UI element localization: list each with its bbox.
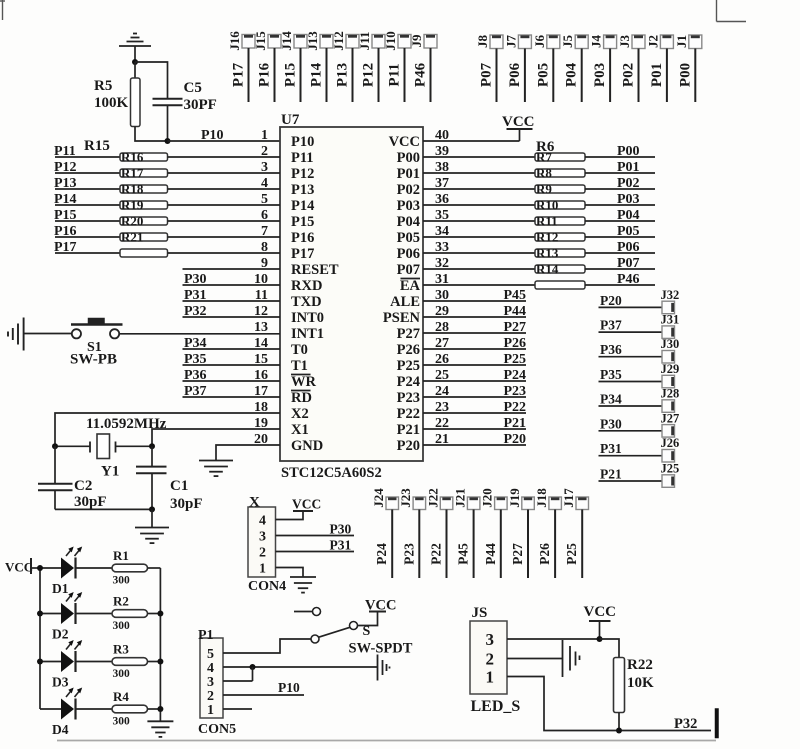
label P44 [503,304,526,319]
pin number 7 [261,224,268,239]
wire to chip [168,252,281,254]
svg-text:P00: P00 [617,144,640,159]
label P35 [184,352,207,367]
wire P34 (pin 14) [183,348,281,350]
svg-text:J21: J21 [452,488,467,508]
wire P14 stub [55,204,120,206]
wire J1 to net P00 [694,49,696,103]
ground (S1 left) [8,318,72,351]
svg-text:D4: D4 [52,722,69,737]
label P26 [503,336,526,351]
svg-text:P26: P26 [503,336,526,351]
pin number 12 [254,304,268,319]
svg-text:P32: P32 [184,304,207,319]
resistor R14 [535,262,585,277]
label P23 (vertical) [401,543,416,565]
wire X1 (pin 19) to right rail [152,429,280,446]
wire C5 bottom [167,105,169,141]
svg-text:J7: J7 [503,35,518,49]
connector J16 [227,31,255,51]
svg-text:C2: C2 [74,478,92,494]
svg-text:P26: P26 [397,342,420,358]
label P05 [617,224,640,239]
svg-text:P35: P35 [184,352,207,367]
label P06 (vertical) [507,62,523,87]
connector J4 [589,35,617,49]
wire P45 (pin 30) [423,300,526,302]
svg-text:30PF: 30PF [184,97,217,113]
svg-text:P21: P21 [600,467,622,482]
wire to net P01 [585,172,655,174]
label P12 [54,160,77,175]
svg-text:VCC: VCC [365,598,396,614]
svg-text:J18: J18 [534,488,549,508]
connector J18 [534,488,562,510]
wire chip to resistor [423,220,535,222]
wire chip to resistor [423,204,535,206]
pin number 28 [435,320,449,335]
svg-text:J30: J30 [661,337,680,351]
wire CON4 pin1 to ground [276,568,304,577]
label P00 [617,144,640,159]
svg-text:Y1: Y1 [101,464,119,480]
svg-text:INT1: INT1 [291,326,324,342]
pin number 17 [254,384,268,399]
svg-text:VCC: VCC [584,604,617,620]
svg-text:P03: P03 [397,198,420,214]
svg-text:P01: P01 [617,160,640,175]
wire to net P02 [585,188,655,190]
wire J9 to net P46 [430,48,432,102]
svg-text:P16: P16 [257,62,273,87]
label P17 (vertical) [231,62,247,87]
connector J9 [409,34,437,48]
label R6 [536,139,555,155]
ground (CON4) [290,577,316,593]
connector J1 [674,35,702,49]
svg-text:13: 13 [254,320,268,335]
CON5 pin 1 [207,703,214,718]
label 11.0592MHz [86,416,167,432]
svg-text:J19: J19 [507,488,522,508]
svg-text:INT0: INT0 [291,310,324,326]
U7 pin name P03 (pin 36) [397,198,420,214]
U7 pin name P17 (pin 8) [291,246,314,262]
U7 pin name X2 (pin 18) [291,406,309,422]
svg-text:P05: P05 [617,224,640,239]
svg-text:J15: J15 [253,31,268,51]
svg-text:P37: P37 [184,384,207,399]
connector J15 [253,31,281,51]
svg-text:R20: R20 [121,214,143,229]
svg-text:R22: R22 [627,657,653,673]
label P24 [503,368,526,383]
label P15 [54,208,77,223]
connector J10 [383,31,411,51]
node junction C5 bottom on P10 [165,138,171,144]
ground (JS pin2) [507,640,580,677]
svg-text:P04: P04 [617,208,640,223]
resistor R7 [535,150,585,165]
border bottom edge line [57,740,716,742]
svg-text:X1: X1 [291,422,309,438]
U7 pin name P13 (pin 4) [291,182,314,198]
wire net P34 to J28 [599,405,663,407]
wire P23 (pin 24) [423,396,526,398]
svg-text:10K: 10K [627,675,654,691]
svg-text:P24: P24 [397,374,420,390]
connector J25 [661,462,680,488]
label P07 [617,256,640,271]
svg-text:P25: P25 [503,352,526,367]
LED D4 [40,688,112,738]
pin number 21 [435,432,449,447]
U7 pin name P04 (pin 35) [397,214,420,230]
U7 pin name P25 (pin 26) [397,358,420,374]
resistor R (unlabeled) [120,249,168,257]
svg-text:P36: P36 [600,342,622,357]
U7 pin name P20 (pin 21) [397,438,420,454]
svg-text:J28: J28 [661,387,680,401]
svg-text:5: 5 [207,647,214,662]
wire net P20 to J32 [599,306,663,308]
pin number 14 [254,336,268,351]
svg-text:P34: P34 [600,392,622,407]
resistor R5 [94,78,140,127]
JS pin 2 [486,650,495,669]
wire chip to resistor [423,156,535,158]
label P06 [617,240,640,255]
connector JS LED_S body [470,605,520,715]
U7 pin name RD (pin 17) [291,390,312,406]
wire to chip [168,188,281,190]
label P37 [600,318,622,333]
svg-text:P46: P46 [413,62,429,87]
connector J31 [661,313,680,339]
svg-text:P30: P30 [600,416,622,431]
label P23 [503,384,526,399]
svg-text:ALE: ALE [390,294,420,310]
switch S1 SW-PB [70,318,123,368]
svg-text:P21: P21 [397,422,420,438]
svg-text:R15: R15 [84,138,110,154]
label P12 (vertical) [361,63,377,87]
wire J8 to net P07 [496,49,498,103]
label P46 [617,272,640,287]
svg-text:CON5: CON5 [198,722,236,737]
resistor R20 [120,214,168,229]
wire P16 stub [55,236,120,238]
CON5 pin 2 [207,689,214,704]
U7 pin name TXD (pin 11) [291,294,322,310]
connector J20 [480,488,508,509]
U7 pin name P22 (pin 23) [397,406,420,422]
wire J10 to net P11 [404,48,406,102]
svg-text:P01: P01 [649,63,665,87]
wire net P35 to J29 [599,381,663,383]
svg-text:J1: J1 [674,35,689,48]
svg-text:VCC: VCC [292,497,321,512]
svg-text:R3: R3 [113,642,129,657]
wire J6 to net P05 [552,49,554,103]
U7 pin name P24 (pin 25) [397,374,420,390]
svg-text:P23: P23 [397,390,420,406]
svg-text:VCC: VCC [502,114,535,130]
svg-text:2: 2 [486,650,495,669]
wire P11 stub [55,156,120,158]
wire P20 (pin 21) [423,444,526,446]
svg-text:J11: J11 [357,32,372,51]
wire chip to resistor [423,188,535,190]
svg-text:P36: P36 [184,368,207,383]
svg-text:2: 2 [207,689,214,704]
svg-text:P17: P17 [291,246,314,262]
svg-text:RESET: RESET [291,262,339,278]
svg-text:300: 300 [113,575,131,587]
svg-text:P14: P14 [54,192,77,207]
label P26 (vertical) [537,543,552,565]
svg-text:2: 2 [259,546,266,561]
svg-text:P24: P24 [374,543,389,565]
label U7 [281,112,300,128]
wire pin1 P10 [168,140,281,142]
svg-text:R7: R7 [536,150,552,165]
wire J18 to net P26 [554,510,556,579]
svg-text:VCC: VCC [389,134,420,150]
svg-text:P02: P02 [397,182,420,198]
wire pin4 to pin3 [252,667,254,681]
wire chip to resistor [423,268,535,270]
wire J2 to net P01 [666,49,668,103]
svg-text:P25: P25 [564,543,579,565]
svg-text:VCC: VCC [5,560,33,575]
capacitor C2 [38,446,107,510]
pin number 18 [254,400,268,415]
svg-text:P02: P02 [621,63,637,87]
label P13 [54,176,77,191]
svg-text:P11: P11 [387,63,403,86]
JS pin 1 [486,668,495,687]
U7 pin name P16 (pin 7) [291,230,314,246]
svg-text:P46: P46 [617,272,640,287]
label P14 (vertical) [309,62,325,87]
svg-text:P30: P30 [184,272,207,287]
wire P25 (pin 26) [423,364,526,366]
ground (SW-SPDT right) [378,655,390,681]
node junction C1 bottom [149,506,155,512]
svg-text:R13: R13 [536,246,559,261]
wire C1 bottom to ground [151,509,153,527]
svg-text:J31: J31 [661,313,680,327]
wire P27 (pin 28) [423,332,526,334]
label P36 [600,342,622,357]
border corner top-right [717,0,747,22]
wire to net P07 [585,268,655,270]
svg-text:P20: P20 [503,432,526,447]
svg-text:D2: D2 [52,627,69,642]
svg-text:P11: P11 [291,150,314,166]
svg-text:P23: P23 [401,543,416,565]
svg-text:J23: J23 [398,488,413,508]
svg-text:J2: J2 [645,35,660,48]
U7 pin name X1 (pin 19) [291,422,309,438]
svg-text:3: 3 [207,675,214,690]
svg-text:P07: P07 [617,256,640,271]
wire to chip [168,172,281,174]
resistor R10 [535,198,585,213]
svg-text:P20: P20 [600,293,622,308]
CON4 pin 4 [259,514,266,529]
U7 pin name P15 (pin 6) [291,214,314,230]
resistor R18 [120,182,168,197]
ground (LED rail) [147,721,173,737]
pin number 9 [261,256,268,271]
svg-text:P32: P32 [674,716,697,732]
svg-text:C1: C1 [170,478,188,494]
svg-text:P12: P12 [291,166,314,182]
wire P36 (pin 16) [183,380,281,382]
svg-text:4: 4 [207,661,214,676]
svg-text:J12: J12 [331,31,346,51]
svg-text:GND: GND [291,438,323,454]
wire net P37 to J31 [599,331,663,333]
label P11 (vertical) [387,63,403,86]
svg-text:JS: JS [472,605,488,621]
label P44 (vertical) [483,543,498,565]
svg-text:X2: X2 [291,406,309,422]
JS pin 3 [486,630,495,649]
svg-text:J8: J8 [475,35,490,49]
label P36 [184,368,207,383]
connector J28 [661,387,680,413]
label R15 [84,138,110,154]
pin number 29 [435,304,449,319]
label P45 (vertical) [456,543,471,565]
svg-text:P13: P13 [335,63,351,87]
resistor R22 10K [614,657,655,713]
wire S1 to pin 13 INT1 [119,333,280,335]
label P27 [503,320,526,335]
wire P31 (pin 11) [183,300,281,302]
svg-text:P14: P14 [309,62,325,87]
svg-text:P31: P31 [330,538,352,553]
power VCC (SW-SPDT) [365,598,396,614]
label P22 [503,400,526,415]
wire junction to C5 top [135,62,168,98]
label P24 (vertical) [374,543,389,565]
svg-text:R14: R14 [536,262,559,277]
label P35 [600,367,622,382]
svg-text:P26: P26 [537,543,552,565]
label P04 (vertical) [564,62,580,87]
node junction R22/P32 [616,728,622,734]
connector J30 [661,337,680,363]
svg-text:R19: R19 [121,198,144,213]
connector J19 [507,488,535,510]
svg-text:P06: P06 [507,62,523,87]
label P32 [674,716,697,732]
svg-text:P30: P30 [330,522,352,537]
wire X2 (pin 18) to left rail [55,413,280,446]
svg-text:P24: P24 [503,368,526,383]
label P05 (vertical) [535,63,551,87]
wire chip to resistor [423,172,535,174]
label P31 [600,441,622,456]
wire J22 to net P22 [446,510,448,579]
wire to R22 top [600,639,620,658]
U7 pin name P10 (pin 1) [291,134,314,150]
svg-text:P02: P02 [617,176,640,191]
wire J24 to net P24 [391,510,393,579]
label P27 (vertical) [510,543,525,565]
resistor R1 300 [112,548,148,587]
svg-text:P04: P04 [564,62,580,87]
svg-text:P07: P07 [397,262,420,278]
wire P21 (pin 22) [423,428,526,430]
wire J13 to net P14 [326,48,328,102]
svg-text:D1: D1 [52,581,69,596]
label P22 (vertical) [429,543,444,565]
U7 pin name P23 (pin 24) [397,390,420,406]
connector J2 [645,35,673,49]
pin number 4 [261,176,268,191]
svg-text:P22: P22 [503,400,526,415]
svg-text:J25: J25 [661,462,680,476]
svg-text:P06: P06 [617,240,640,255]
U7 pin name T0 (pin 14) [291,342,308,358]
connector J32 [661,288,680,314]
node junction left rail D2 [37,611,43,617]
pin number 39 [435,144,449,159]
pin number 3 [261,160,268,175]
svg-text:SW-PB: SW-PB [70,352,117,368]
svg-text:R9: R9 [536,182,552,197]
svg-text:PSEN: PSEN [383,310,421,326]
wire P13 stub [55,188,120,190]
pin number 30 [435,288,449,303]
wire chip to resistor [423,284,535,286]
pin number 36 [435,192,449,207]
label P34 [184,336,207,351]
connector X CON4 body [248,495,286,595]
pin number 19 [254,416,268,431]
resistor R17 [120,166,168,181]
connector J13 [305,31,333,51]
IC U7 STC12C5A60S2 body [280,127,423,461]
label P46 (vertical) [413,62,429,87]
svg-text:1: 1 [207,703,214,718]
U7 pin name PSEN (pin 29) [383,310,421,326]
svg-text:P06: P06 [397,246,420,262]
connector J5 [560,35,588,49]
ground (top, above R5) [119,34,151,63]
node junction crystal right [149,443,155,449]
label STC12C5A60S2 [281,465,382,481]
wire J4 to net P03 [609,49,611,103]
svg-text:R5: R5 [94,78,112,94]
svg-text:J9: J9 [409,34,424,48]
wire J14 to net P15 [300,48,302,102]
wire to net P04 [585,220,655,222]
wire P30 (pin 10) [183,284,281,286]
wire J11 to net P12 [378,48,380,102]
svg-text:P25: P25 [397,358,420,374]
node junction right rail R4 [157,706,163,712]
connector J6 [532,35,560,49]
pin number 16 [254,368,268,383]
label P01 [617,160,640,175]
pin number 34 [435,224,449,239]
